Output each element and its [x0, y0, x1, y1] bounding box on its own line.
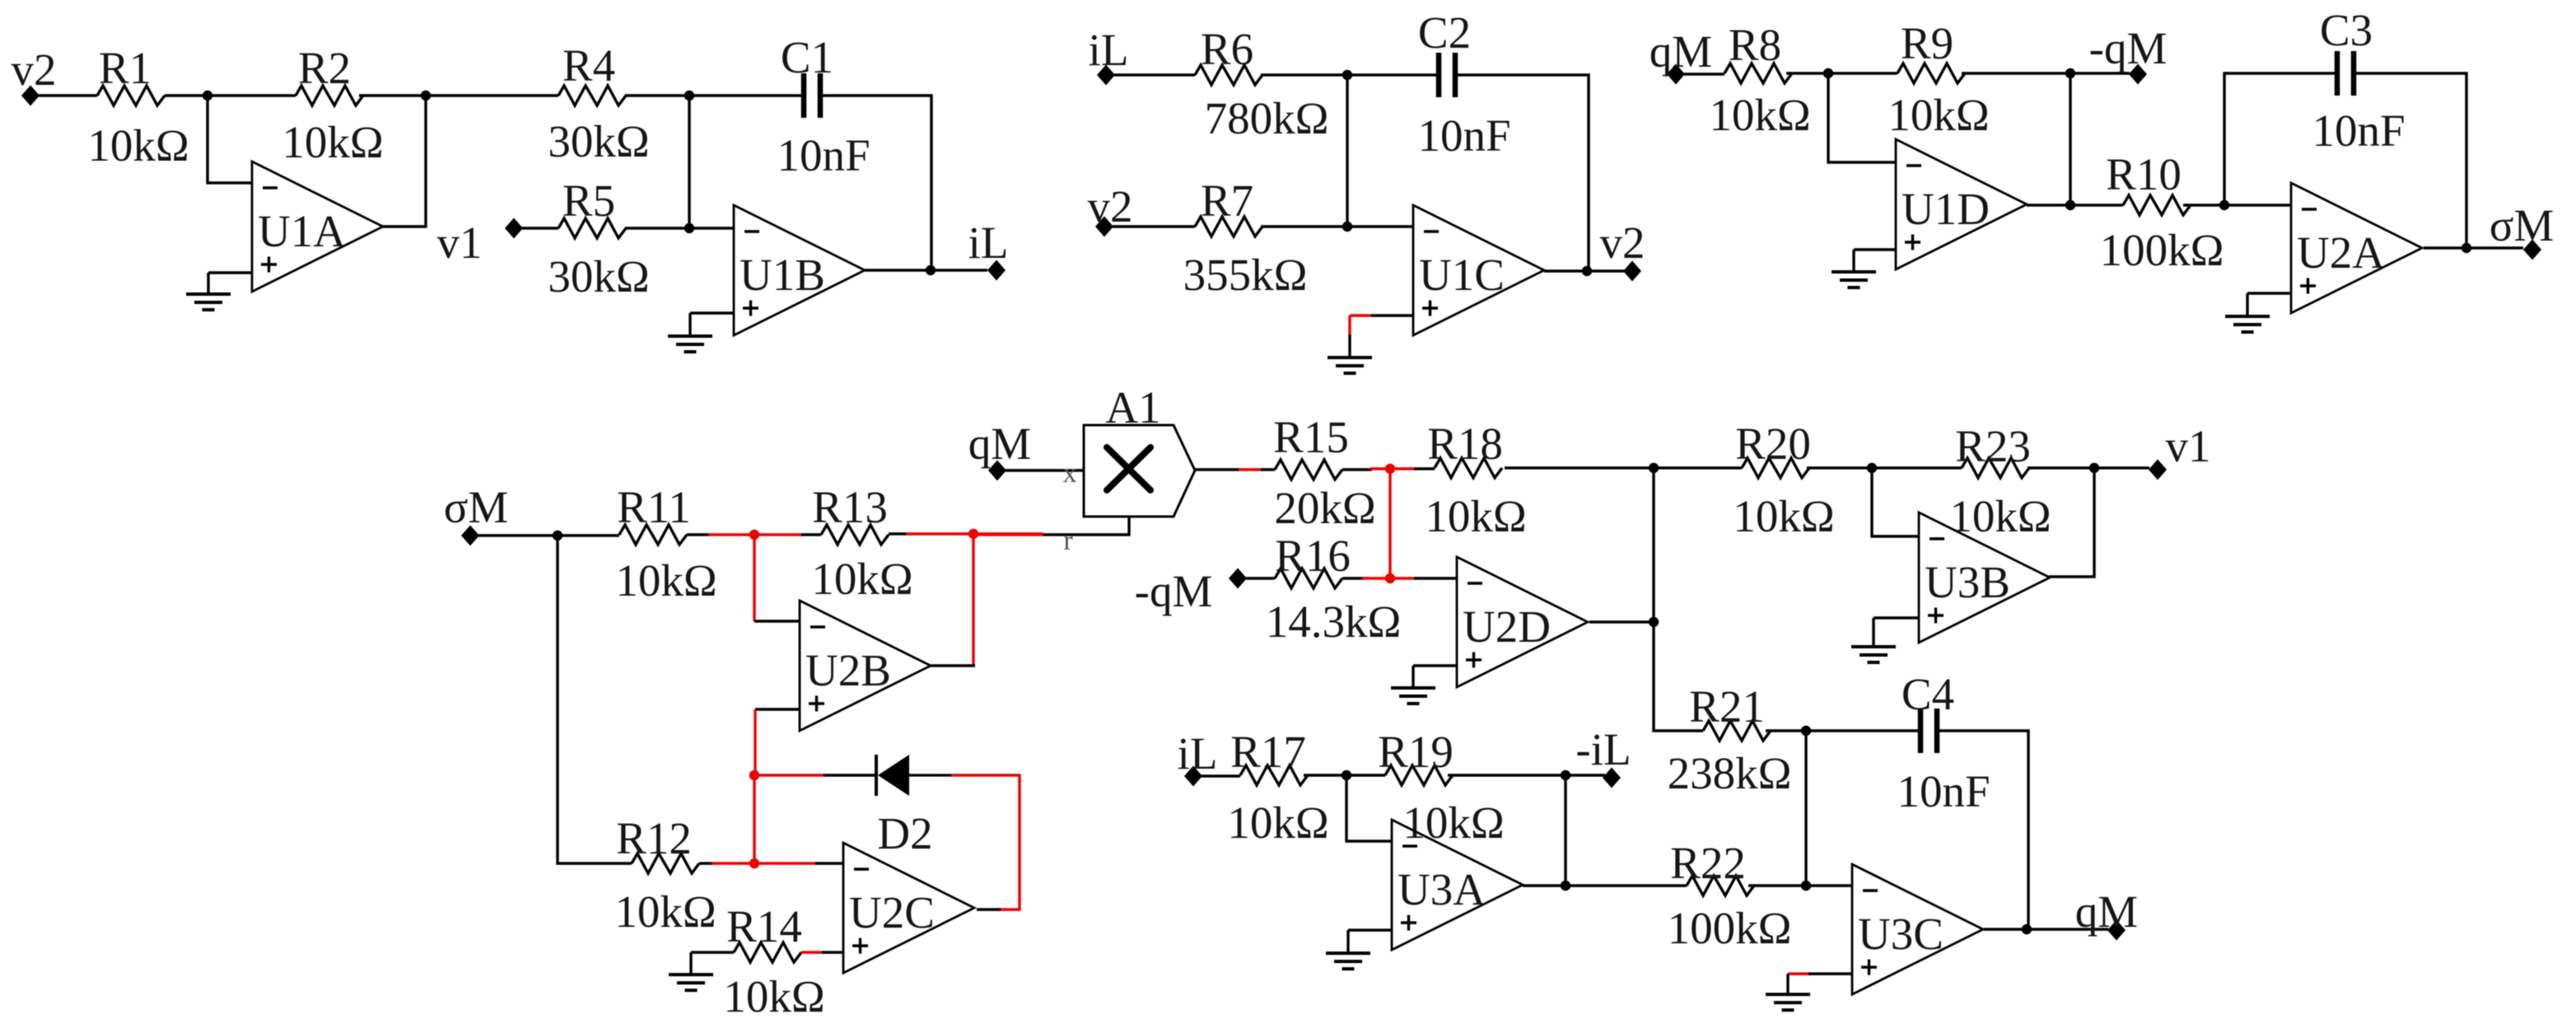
wire ground stem U3B [1872, 618, 1874, 646]
svg-text:iL: iL [968, 217, 1009, 268]
node port iL (U1B output) [968, 217, 1009, 281]
wire ground to R14 [691, 951, 734, 953]
junction U3C out/C4 [2022, 924, 2032, 934]
op-amp U3A [1392, 820, 1523, 950]
resistor R2 [282, 43, 383, 167]
junction R18/R20/trunk [1649, 463, 1659, 473]
svg-text:10kΩ: 10kΩ [614, 886, 716, 937]
junction U1D out [2065, 200, 2075, 210]
junction red R13/U2B out/A1 y [968, 529, 978, 539]
svg-text:780kΩ: 780kΩ [1205, 93, 1329, 143]
wire U3C output to qM port [1984, 928, 2108, 930]
wire red A1 output segment [1239, 468, 1262, 470]
svg-text:qM: qM [1650, 26, 1712, 77]
svg-text:R11: R11 [617, 482, 691, 532]
svg-text:10kΩ: 10kΩ [1949, 491, 2051, 541]
svg-text:30kΩ: 30kΩ [548, 251, 649, 302]
svg-text:R18: R18 [1427, 419, 1503, 469]
wire into R13 [801, 533, 821, 536]
wire -iL junction down to U3A output [1564, 775, 1566, 886]
wire red down to R16 junction [1388, 469, 1391, 578]
op-amp U1D [1896, 139, 2027, 269]
svg-text:U1D: U1D [1902, 184, 1990, 234]
wire red R12 to U2C inv [712, 862, 817, 864]
wire iL to R6 [1114, 73, 1195, 76]
wire R8 to R9 through junction [1786, 72, 1897, 74]
svg-text:U2B: U2B [805, 645, 891, 695]
svg-text:v2: v2 [1600, 217, 1645, 268]
wire ground stem U1A [207, 273, 209, 293]
op-amp U3C [1852, 864, 1983, 994]
wire junction down to U3A inverting input [1346, 775, 1392, 841]
wire C1 right plate to U1B output [820, 96, 931, 270]
junction U1B out/C1 [926, 265, 936, 275]
junction R2/R4/U1A out [421, 91, 431, 101]
junction R9/-qM/U1D out [2065, 68, 2075, 78]
svg-text:20kΩ: 20kΩ [1274, 483, 1375, 533]
wire iL to R17 [1202, 774, 1240, 777]
wire R4 to C1 left plate [625, 94, 804, 96]
svg-text:R15: R15 [1273, 412, 1349, 462]
node port qM (input to R8) [1650, 26, 1712, 85]
op-amp U1A [252, 161, 383, 292]
svg-text:10kΩ: 10kΩ [1888, 90, 1989, 140]
resistor R10 [2100, 149, 2224, 275]
svg-text:10nF: 10nF [2312, 105, 2405, 156]
junction R5/U1B inv [684, 223, 694, 233]
node port v2 (U1C output) [1600, 217, 1645, 282]
resistor R6 [1195, 24, 1328, 143]
wire R9 to -qM port through junction [1962, 72, 2130, 74]
svg-text:10kΩ: 10kΩ [615, 555, 716, 606]
svg-text:R14: R14 [726, 901, 802, 952]
resistor R23 [1949, 421, 2051, 541]
svg-text:R20: R20 [1735, 419, 1811, 469]
resistor R14 [723, 901, 824, 1022]
wire junction down to R22 junction [1804, 731, 1807, 886]
op-amp U2A [2291, 183, 2422, 313]
wire R17 to R19 through junction [1304, 774, 1385, 776]
node port qM (U3C output) [2075, 886, 2138, 941]
op-amp U2C [843, 843, 974, 973]
svg-text:R21: R21 [1689, 681, 1765, 732]
svg-text:r: r [1063, 526, 1073, 556]
wire red A1 y input to U2B net [973, 533, 1043, 536]
wire junction down to R7 row [1346, 75, 1348, 227]
svg-text:qM: qM [968, 419, 1031, 469]
node port v2 (input to R7) [1088, 181, 1133, 237]
wire R15 to red junction [1342, 468, 1372, 470]
capacitor C3 [2312, 5, 2405, 156]
svg-text:C1: C1 [781, 32, 833, 82]
junction R17/R19/U3A inv [1342, 770, 1351, 780]
wire R10 to U2A inverting input [2183, 203, 2291, 206]
resistor R22 [1668, 838, 1792, 953]
wire U1D + input to ground [1854, 248, 1896, 250]
svg-text:qM: qM [2075, 886, 2138, 937]
wire into U2C + input [822, 951, 843, 953]
svg-text:R8: R8 [1729, 20, 1781, 70]
svg-text:U3A: U3A [1398, 864, 1486, 914]
svg-text:-iL: -iL [1575, 724, 1631, 774]
svg-text:10kΩ: 10kΩ [1709, 90, 1810, 140]
junction R21/C4/trunk2 [1801, 726, 1811, 736]
wire U3B output up to R23 junction [2049, 468, 2094, 577]
svg-text:10nF: 10nF [1417, 110, 1510, 161]
svg-text:30kΩ: 30kΩ [548, 116, 649, 166]
resistor R1 [87, 43, 189, 171]
wire R6 to C2 through junction [1261, 73, 1439, 76]
svg-text:R17: R17 [1230, 727, 1306, 777]
node port iL (input to R6) [1089, 25, 1129, 86]
svg-text:U1C: U1C [1419, 250, 1505, 300]
ground at U3A + [1326, 953, 1370, 969]
wire R18 to R20 through trunk junction [1505, 466, 1742, 469]
wire R5 to U1B inverting input [625, 227, 734, 229]
wire red U2B + down to D2 row [754, 709, 756, 775]
svg-text:238kΩ: 238kΩ [1668, 748, 1792, 798]
wire into U2C inverting input [815, 862, 843, 864]
wire into R18 [1414, 467, 1435, 470]
op-amp U3B [1919, 512, 2050, 643]
svg-text:A1: A1 [1105, 382, 1160, 433]
wire R7 to U1C inverting input [1261, 225, 1413, 227]
svg-text:U2D: U2D [1463, 601, 1551, 652]
junction U2A out/C3 [2462, 243, 2471, 253]
multiplier A1 [1084, 382, 1195, 517]
svg-text:U2C: U2C [849, 887, 935, 938]
svg-text:U2A: U2A [2297, 227, 2385, 278]
node port v2 (input to R1) [12, 44, 57, 106]
svg-text:R4: R4 [562, 40, 615, 91]
diode D2 [876, 755, 953, 858]
svg-text:355kΩ: 355kΩ [1183, 250, 1308, 300]
wire U2D output to trunk [1589, 620, 1654, 623]
wire C2 right plate down to U1C output [1456, 75, 1589, 271]
wire R21 to C4 through junction [1766, 729, 1920, 732]
svg-text:10kΩ: 10kΩ [723, 971, 824, 1022]
junction R19/-iL/U3A out [1561, 770, 1570, 780]
node port qM (input to A1 x) [968, 419, 1031, 481]
wire red R16/U2D inv junction [1362, 577, 1416, 579]
ground at U1C + [1328, 358, 1372, 373]
svg-text:iL: iL [1089, 25, 1129, 75]
wire U2D + input to ground [1413, 664, 1457, 667]
node port -qM (U1D output) [2089, 23, 2168, 85]
wire trunk vertical R18-R20 node down to R21 [1654, 468, 1703, 731]
junction red R12/U2C inv [749, 858, 759, 868]
svg-text:v1: v1 [2166, 421, 2211, 471]
wire junction down to U1A inverting input [208, 96, 252, 183]
svg-text:U3C: U3C [1858, 909, 1944, 959]
wire R4 junction down to U1B inv junction [688, 96, 690, 228]
wire junction down to U3B inverting input [1872, 468, 1919, 536]
ground at U3C + [1766, 994, 1810, 1010]
node port -iL (U3A output) [1575, 724, 1631, 788]
junction R7/U1C inv [1342, 222, 1352, 232]
svg-text:R6: R6 [1201, 24, 1253, 74]
svg-text:R7: R7 [1201, 175, 1253, 226]
junction R1/R2/U1A inv [203, 91, 212, 101]
svg-text:R22: R22 [1670, 838, 1746, 888]
ground at U3B + [1851, 647, 1896, 662]
op-amp U2B [800, 601, 931, 731]
junction red R15/R18 [1385, 464, 1395, 474]
wire to D2 cathode bar [824, 774, 876, 776]
svg-text:C4: C4 [1902, 669, 1954, 719]
svg-text:R1: R1 [99, 43, 152, 93]
node port sigmaM (input to R11/R12) [444, 482, 509, 546]
resistor R17 [1227, 727, 1328, 848]
wire R12 to red net [699, 862, 713, 864]
wire ground stem U1D [1852, 250, 1855, 271]
wire R23 to v1 port through junction [2028, 466, 2149, 469]
resistor R16 [1266, 531, 1402, 647]
junction R10/C3 [2219, 200, 2229, 210]
wire junction down to R12 [558, 536, 632, 863]
op-amp U2D [1457, 557, 1588, 687]
ground at U1D + [1832, 272, 1876, 288]
wire R16 to red junction [1342, 577, 1364, 579]
wire U2B output [930, 664, 975, 667]
wire U1C + input [1371, 314, 1413, 316]
svg-text:R2: R2 [298, 43, 351, 93]
svg-text:-qM: -qM [1135, 566, 1213, 616]
svg-text:R9: R9 [1901, 18, 1953, 68]
junction R22/U3C inv [1801, 881, 1811, 891]
svg-text:v2: v2 [1088, 181, 1133, 232]
wire U3B + input to ground [1874, 616, 1919, 619]
wire ground stem U2D [1412, 666, 1414, 687]
resistor R12 [614, 813, 716, 937]
wire red D2 anode to U2C output [951, 775, 1020, 910]
wire ground stem U1B [688, 313, 691, 335]
svg-text:U3B: U3B [1925, 557, 2010, 607]
svg-text:R23: R23 [1955, 421, 2031, 471]
wire ground stem U2A [2246, 293, 2248, 316]
node port v1 (U3B output) [2149, 421, 2211, 480]
svg-text:10kΩ: 10kΩ [811, 554, 912, 604]
node port iL (input to R17) [1178, 728, 1218, 787]
wire qM to A1 x input [1006, 469, 1084, 471]
wire R1 to R2 through junction [165, 94, 296, 96]
resistor R21 [1668, 681, 1792, 798]
svg-text:10kΩ: 10kΩ [1733, 491, 1834, 541]
svg-text:R5: R5 [562, 175, 615, 226]
junction sigmaM/R11/R12 [553, 531, 562, 540]
wire v2 to R7 [1113, 225, 1195, 227]
wire ground stem R14 [689, 952, 692, 974]
capacitor C1 [777, 32, 870, 180]
svg-text:100kΩ: 100kΩ [2100, 225, 2224, 275]
capacitor C2 [1417, 7, 1510, 161]
wire red ground stem upper U1C [1348, 316, 1351, 335]
junction red D2 anode-side net [749, 770, 759, 780]
svg-text:U1A: U1A [258, 206, 346, 256]
wire R20 to R23 through junction [1807, 466, 1962, 469]
svg-text:U1B: U1B [740, 250, 825, 300]
resistor R19 [1378, 727, 1505, 848]
node port v1 (input to R5) [437, 217, 524, 268]
svg-text:σM: σM [444, 482, 509, 532]
ground at U2D + [1391, 688, 1435, 704]
wire -qM junction down to U1D output [2069, 73, 2071, 205]
svg-text:R13: R13 [812, 482, 888, 532]
capacitor C4 [1897, 669, 1990, 816]
wire U1B + input to ground [690, 311, 734, 314]
junction R20/R23/U3B inv [1867, 463, 1877, 473]
wire sigmaM to R11 through junction [478, 534, 619, 536]
wire red D2 net down to R12 row [753, 775, 755, 863]
wire junction up to C3 left plate [2224, 73, 2337, 205]
wire red stub at U1C + input [1350, 314, 1373, 316]
svg-text:R19: R19 [1378, 727, 1454, 777]
resistor R8 [1709, 20, 1810, 140]
svg-text:σM: σM [2490, 200, 2555, 250]
wire U3C + input [1808, 972, 1852, 975]
svg-text:14.3kΩ: 14.3kΩ [1266, 596, 1402, 647]
wire red junction down to U2B inv row [753, 535, 755, 621]
svg-text:10nF: 10nF [777, 130, 870, 180]
junction R23/U3B out [2089, 463, 2099, 473]
resistor R9 [1888, 18, 1989, 140]
wire qM to R8 [1684, 72, 1724, 75]
wire U3A + input to ground [1348, 928, 1392, 931]
wire U1B output to iL port [865, 269, 987, 271]
svg-text:R16: R16 [1275, 531, 1351, 581]
wire -qM to R16 [1246, 577, 1275, 579]
svg-text:10kΩ: 10kΩ [87, 120, 189, 171]
svg-text:10kΩ: 10kΩ [282, 117, 383, 167]
wire red R13 to A1 y-input net [906, 532, 1043, 535]
wire U2A + input to ground [2247, 292, 2291, 294]
wire C3 right plate down to U2A output [2354, 73, 2466, 248]
wire A1 y input down and left [1042, 517, 1129, 535]
wire red R15/R18 junction [1370, 467, 1416, 470]
svg-text:R12: R12 [616, 813, 692, 863]
wire into U2B inverting input [754, 620, 800, 622]
svg-text:v2: v2 [12, 44, 57, 95]
junction R4/C1 [684, 91, 694, 101]
junction U1C out/C2 [1582, 266, 1592, 276]
wire U2C output [977, 908, 1001, 910]
wire U1A + input to ground [208, 271, 252, 274]
wire into R15 [1261, 468, 1275, 470]
wire R2 to R4 through junction [359, 94, 558, 96]
node port -qM (input to R16) [1135, 566, 1247, 616]
wire U2B + input [755, 708, 800, 710]
wire junction down to U1D inverting input [1828, 73, 1896, 162]
wire C4 right plate down to U3C output [1937, 731, 2028, 929]
svg-text:100kΩ: 100kΩ [1668, 903, 1792, 953]
ground at U1A + [186, 294, 231, 310]
wire U3A output to R22 [1523, 884, 1687, 886]
wire A1 output [1195, 468, 1240, 470]
resistor R11 [615, 482, 716, 606]
wire red R11 to R13 net [708, 533, 803, 536]
svg-text:iL: iL [1178, 728, 1218, 779]
svg-text:v1: v1 [437, 217, 483, 268]
wire U1D output to R10 [2027, 203, 2123, 206]
wire v2 to R1 [39, 94, 97, 96]
svg-text:x: x [1063, 458, 1077, 489]
resistor R20 [1733, 419, 1834, 541]
wire R13 to red net [889, 532, 908, 535]
wire ground stem U3C [1786, 974, 1789, 994]
junction red R11/R13/U2B inv [749, 530, 759, 540]
junction R8/R9/U1D inv [1823, 68, 1833, 78]
wire ground stem U1C [1348, 334, 1351, 357]
svg-text:-qM: -qM [2089, 23, 2168, 73]
wire R22 to U3C inverting input [1748, 884, 1852, 886]
svg-text:D2: D2 [877, 808, 932, 858]
svg-text:10kΩ: 10kΩ [1402, 797, 1504, 848]
svg-text:10kΩ: 10kΩ [1227, 797, 1328, 848]
wire U2A output to sigmaM port [2424, 246, 2523, 249]
wire R19 to -iL port through junction [1448, 774, 1605, 776]
wire red to D2 cathode [754, 774, 825, 776]
wire red stub at U3C + input [1788, 972, 1810, 975]
junction U2D out/trunk [1649, 617, 1659, 627]
junction R6/C2/U1C inv column [1342, 70, 1352, 80]
ground at R14 [669, 975, 713, 990]
wire U1C output to v2 port [1544, 269, 1624, 272]
svg-text:R10: R10 [2106, 149, 2182, 199]
junction U3A out [1561, 881, 1570, 891]
ground at U2A + [2225, 316, 2270, 332]
svg-text:C3: C3 [2320, 5, 2373, 55]
wire ground stem U3A [1346, 930, 1349, 952]
svg-text:10kΩ: 10kΩ [1425, 491, 1526, 541]
resistor R7 [1183, 175, 1308, 300]
junction red R16/U2D inv [1385, 573, 1395, 583]
wire U1A output up to R2/R4 junction [382, 96, 426, 227]
resistor R4 [548, 40, 649, 166]
op-amp U1C [1413, 205, 1544, 335]
resistor R15 [1273, 412, 1376, 533]
wire red R14 to U2C + [801, 951, 824, 953]
node port sigmaM (U2A output) [2490, 200, 2555, 260]
wire v1 to R5 [522, 227, 558, 229]
op-amp U1B [734, 205, 865, 335]
svg-text:10nF: 10nF [1897, 766, 1990, 816]
wire into U2D inverting input [1414, 577, 1457, 579]
wire R11 to red net [687, 533, 710, 536]
svg-text:C2: C2 [1418, 7, 1471, 58]
resistor R18 [1425, 419, 1526, 541]
wire red junction down to U2B output [972, 534, 974, 666]
ground at U1B + [668, 336, 712, 352]
resistor R5 [548, 175, 649, 302]
resistor R13 [811, 482, 912, 604]
